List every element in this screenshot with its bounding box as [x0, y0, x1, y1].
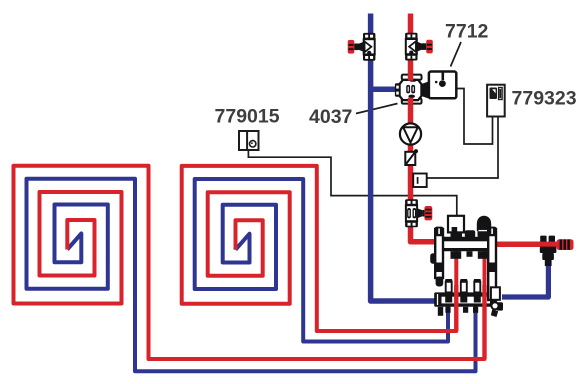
sensor pocket: [413, 174, 427, 188]
manifold right rail: [487, 227, 497, 300]
fill valve union body below: [540, 247, 557, 266]
fill valve pipe stub over lugs: [538, 242, 558, 247]
main blue return pipe: [371, 14, 437, 302]
svg-text:779015: 779015: [215, 106, 280, 128]
stubs below return bar: [438, 307, 478, 316]
controller 779323 box: [487, 85, 505, 117]
main red supply pipe: [411, 14, 437, 242]
thermostat 779015 box: [239, 131, 259, 150]
red drop pipes over return bar: [454, 285, 458, 331]
top bar hump fittings: [465, 230, 475, 238]
left spiral blue return pipe: [27, 179, 476, 371]
manifold drain knob left: [430, 253, 437, 264]
supply bar bottom port stubs: [451, 251, 462, 259]
svg-text:7712: 7712: [445, 21, 489, 43]
supply manifold top bar: [434, 237, 497, 251]
manifold actuator box: [448, 216, 464, 233]
ball valve V1 on blue pipe (handle left): [348, 33, 376, 61]
callout line 4037: [356, 104, 398, 114]
svg-text:4037: 4037: [309, 106, 352, 128]
pump P1: [400, 123, 421, 144]
right spiral blue return pipe: [195, 179, 448, 342]
air vent dome: [477, 216, 491, 231]
port fittings on return bar: [445, 279, 481, 292]
actuator 7712: [429, 72, 456, 99]
callout line 7712: [451, 42, 462, 67]
manifold right end drain fitting: [491, 287, 503, 317]
right spiral red supply pipe: [182, 166, 457, 331]
manifold left rail: [434, 227, 444, 287]
blue branch to mixing valve: [371, 86, 397, 92]
fill valve handle: [557, 239, 574, 250]
left spiral red supply pipe: [14, 166, 485, 359]
red pipe over mixing valve flanges: [408, 74, 413, 81]
wire thermostat-to-manifold-actuator: [248, 150, 456, 218]
wire actuator-7712-to-779323: [456, 89, 492, 145]
blue pipe fill valve to manifold: [502, 264, 548, 297]
red pipe top bar to fill valve: [495, 242, 541, 248]
fill valve lugs: [540, 236, 555, 243]
wire 779323-to-sensor: [427, 116, 499, 178]
ball valve V3 above manifold (handle right): [405, 199, 432, 227]
ball valve V2 on red pipe (handle right): [405, 33, 433, 61]
return manifold bottom bar: [434, 292, 497, 306]
check valve: [405, 149, 418, 165]
svg-text:779323: 779323: [512, 88, 577, 110]
mixing valve 4037: [395, 75, 429, 104]
